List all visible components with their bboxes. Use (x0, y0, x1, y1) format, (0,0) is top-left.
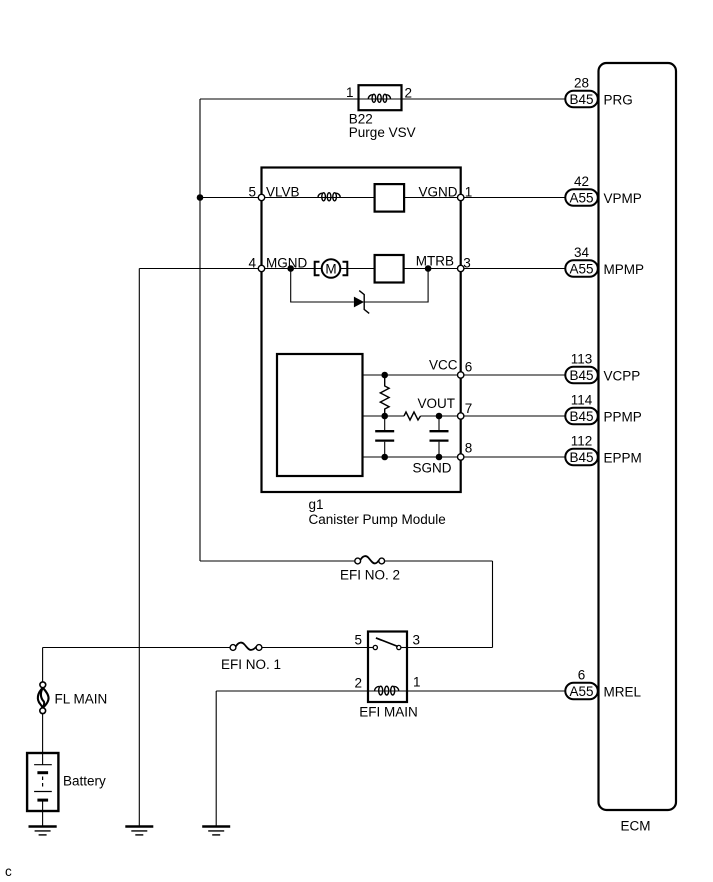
solenoid valve B22 Purge VSV (359, 85, 402, 110)
wire VOUT row pin 7 to ECM (461, 415, 566, 417)
battery dashed cell link (42, 777, 44, 789)
battery plate long thin (bottom) (34, 791, 52, 793)
svg-text:5: 5 (354, 633, 362, 648)
node VOUT right junction (436, 413, 443, 420)
svg-text:VCPP: VCPP (604, 368, 641, 383)
wire MGND row from left vertical to module pin 4 (139, 268, 261, 270)
wire VCC row pin 6 to ECM (461, 374, 566, 376)
node VCC junction (381, 372, 388, 379)
module internal wire SGND row (363, 456, 461, 458)
svg-text:VGND: VGND (418, 185, 457, 200)
resistor (vertical) between VCC and VOUT (380, 375, 389, 416)
connector pill A55 pin 42 (VPMP) (565, 174, 598, 206)
pin 8 circle (458, 454, 464, 460)
svg-text:A55: A55 (569, 261, 593, 276)
svg-text:2: 2 (354, 676, 362, 691)
wire SGND row pin 8 to ECM (461, 456, 566, 458)
svg-text:VLVB: VLVB (266, 185, 300, 200)
relay EFI MAIN (368, 632, 407, 703)
svg-text:c: c (5, 864, 12, 879)
sensor block (inner rectangle) (277, 354, 363, 476)
relay contact wires (368, 647, 373, 649)
svg-text:5: 5 (248, 185, 256, 200)
driver block (square) on MTRB row (375, 255, 404, 283)
pin 4 circle (258, 265, 264, 271)
svg-text:PPMP: PPMP (604, 409, 642, 424)
svg-text:B45: B45 (569, 368, 593, 383)
relay coil (368, 690, 407, 692)
svg-text:113: 113 (571, 352, 593, 367)
Canister Pump Module box g1 (262, 168, 461, 493)
svg-text:A55: A55 (569, 684, 593, 699)
wire MTRB row module pin 3 to ECM (461, 268, 566, 270)
pin 7 circle (458, 413, 464, 419)
node MGND junction (287, 265, 294, 272)
svg-text:6: 6 (465, 360, 473, 375)
wire FL MAIN to battery (42, 714, 44, 765)
svg-text:Purge VSV: Purge VSV (349, 125, 416, 140)
svg-text:3: 3 (413, 633, 421, 648)
svg-text:2: 2 (405, 86, 413, 101)
wire EFI NO.1 row left segment (43, 647, 231, 649)
svg-text:SGND: SGND (413, 461, 452, 476)
resistor (horizontal) on VOUT row (404, 412, 421, 420)
svg-text:MGND: MGND (266, 256, 307, 271)
coil of Purge VSV (368, 94, 390, 102)
svg-text:6: 6 (578, 668, 586, 683)
svg-text:MREL: MREL (604, 684, 642, 699)
svg-text:MTRB: MTRB (416, 254, 454, 269)
driver block (square) on VLVB row (375, 184, 405, 212)
wire VLVB row from bus to module pin 5 (200, 197, 262, 199)
wire vertical from EFI NO.2 down to relay pin 3 row (492, 561, 494, 648)
ground (MGND) (125, 827, 153, 835)
svg-text:1: 1 (346, 85, 354, 100)
connector pill B45 pin 113 (VCPP) (565, 352, 598, 384)
ECM box (599, 63, 677, 810)
node VOUT left junction (381, 413, 388, 420)
svg-text:1: 1 (413, 675, 421, 690)
svg-text:1: 1 (465, 185, 473, 200)
connector pill B45 pin 112 (EPPM) (565, 434, 598, 466)
svg-text:Canister Pump Module: Canister Pump Module (309, 512, 446, 527)
svg-text:42: 42 (574, 174, 589, 189)
wire left vertical bus from PRG row down to EFI NO.2 row (199, 99, 201, 561)
wire far-left vertical from EFI NO.1 row down to FL MAIN (42, 648, 44, 683)
svg-text:B45: B45 (569, 92, 593, 107)
battery plate short thick (37, 771, 48, 774)
capacitor C-left (375, 416, 394, 457)
wire relay pin 2 row to left then down to ground (216, 690, 368, 692)
connector pill A55 pin 34 (MPMP) (565, 245, 598, 277)
module internal wire MGND/MTRB row (262, 268, 461, 270)
svg-text:B45: B45 (569, 409, 593, 424)
ground (relay coil) (202, 827, 230, 835)
pin 3 circle (458, 265, 464, 271)
relay blade (376, 638, 398, 647)
module internal wire VCC row (363, 374, 461, 376)
svg-text:3: 3 (463, 256, 471, 271)
connector pill A55 pin 6 (MREL) (565, 668, 598, 700)
svg-text:EPPM: EPPM (604, 450, 642, 465)
capacitor C-right (430, 416, 449, 457)
node SGND right junction (436, 454, 443, 461)
node junction on bus at VLVB row (197, 194, 204, 201)
svg-text:PRG: PRG (604, 92, 633, 107)
svg-text:28: 28 (574, 76, 589, 91)
svg-text:EFI NO. 1: EFI NO. 1 (221, 657, 281, 672)
pin 6 circle (458, 372, 464, 378)
wire relay pin 3 to vertical (407, 647, 493, 649)
svg-text:112: 112 (571, 434, 593, 449)
svg-text:MPMP: MPMP (604, 262, 645, 277)
svg-text:EFI NO. 2: EFI NO. 2 (340, 568, 400, 583)
battery plate long thin (top) (34, 764, 52, 766)
wire EFI NO.2 row right segment (385, 560, 493, 562)
svg-text:ECM: ECM (621, 819, 651, 834)
wire left ground vertical from MGND row (138, 269, 140, 827)
module internal wire VOUT row with resistor (horizontal) (363, 415, 461, 417)
coil (valve solenoid) on VLVB row (318, 193, 340, 201)
battery plate short thick (bottom) (37, 799, 48, 802)
svg-text:4: 4 (248, 256, 256, 271)
connector pill B45 pin 114 (PPMP) (565, 393, 598, 425)
wire EFI NO.1 row right segment to relay pin 5 (262, 647, 368, 649)
relay contact circles (373, 645, 377, 649)
node SGND left junction (381, 454, 388, 461)
fuse EFI NO. 2 (355, 556, 385, 564)
wire EFI NO.2 row left segment (200, 560, 355, 562)
zener diode across motor (354, 291, 369, 314)
ground (battery) (29, 827, 57, 835)
svg-text:A55: A55 (569, 190, 593, 205)
wire PRG row left segment (200, 98, 359, 100)
svg-text:FL MAIN: FL MAIN (55, 692, 108, 707)
wire relay pin 1 to ECM MREL (407, 690, 566, 692)
svg-text:VPMP: VPMP (604, 191, 642, 206)
wire zener clamp loop (291, 269, 428, 303)
connector pill B45 pin 28 (PRG) (565, 76, 598, 108)
svg-text:34: 34 (574, 245, 590, 260)
wire VGND row module pin 1 to ECM (461, 197, 566, 199)
svg-text:g1: g1 (309, 497, 324, 512)
motor M (pump motor) (315, 259, 348, 278)
pin 5 circle (258, 194, 264, 200)
svg-text:VCC: VCC (429, 358, 458, 373)
svg-text:7: 7 (465, 401, 473, 416)
svg-text:8: 8 (465, 441, 473, 456)
svg-text:114: 114 (571, 393, 593, 408)
svg-text:Battery: Battery (63, 774, 106, 789)
pin 1 circle (458, 194, 464, 200)
svg-text:B45: B45 (569, 450, 593, 465)
svg-text:VOUT: VOUT (417, 396, 455, 411)
Battery (27, 753, 58, 811)
fuse EFI NO. 1 (230, 643, 262, 651)
svg-text:EFI MAIN: EFI MAIN (359, 705, 418, 720)
node MTRB junction (425, 265, 432, 272)
wire battery negative to ground (42, 800, 44, 826)
wire PRG row right segment to ECM (401, 98, 566, 100)
svg-text:M: M (325, 261, 336, 276)
module internal wire VLVB row (262, 197, 461, 199)
fusible link FL MAIN (38, 682, 49, 714)
